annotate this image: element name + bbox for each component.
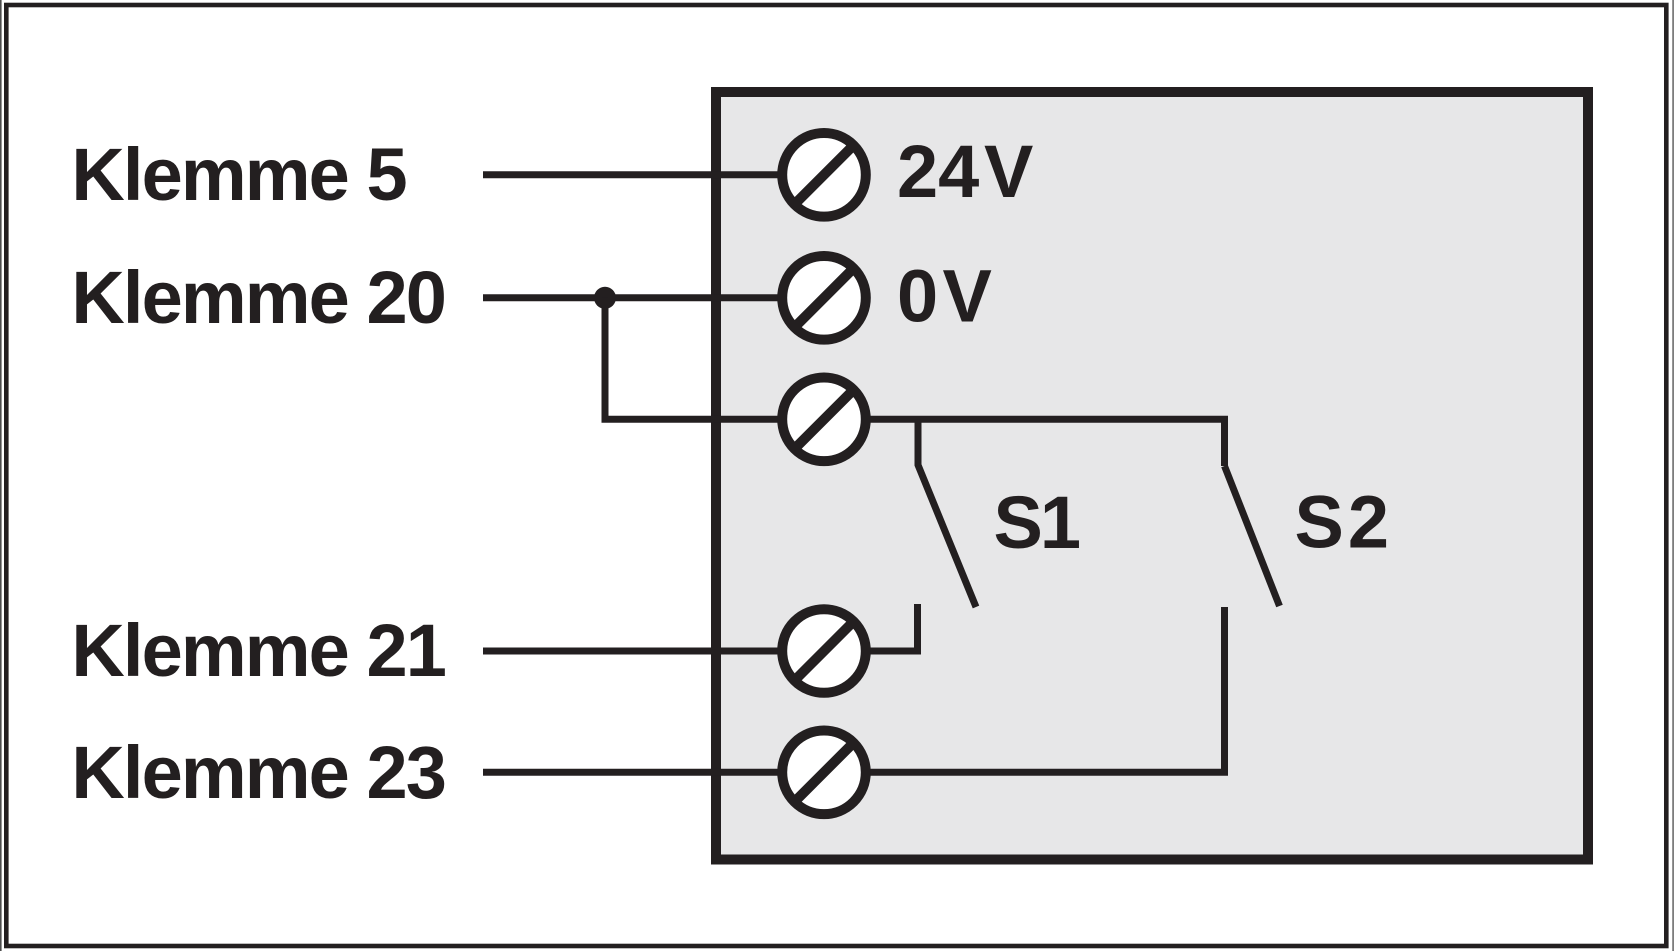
wire Klemme 5 to 24V terminal bbox=[483, 171, 824, 178]
svg-text:24: 24 bbox=[897, 130, 979, 213]
wire Klemme 23 to terminal 5 bbox=[483, 769, 824, 776]
terminal 3 bbox=[782, 378, 866, 462]
switch S1 bbox=[918, 419, 976, 607]
svg-text:Klemme 20: Klemme 20 bbox=[71, 256, 445, 339]
terminal 0V bbox=[782, 256, 866, 340]
label 24 V bbox=[897, 130, 1033, 213]
svg-text:Klemme 23: Klemme 23 bbox=[71, 731, 445, 814]
svg-text:S1: S1 bbox=[994, 481, 1080, 564]
svg-text:0: 0 bbox=[897, 255, 938, 338]
wire junction node to terminal 3 bbox=[605, 298, 824, 420]
node junction on Klemme 20 wire bbox=[594, 287, 616, 309]
wire terminal 5 to S2 bottom contact bbox=[824, 607, 1225, 772]
svg-text:V: V bbox=[984, 130, 1033, 213]
label 0 V bbox=[897, 255, 992, 338]
terminal Klemme 21 bbox=[782, 609, 866, 693]
svg-text:Klemme 5: Klemme 5 bbox=[71, 133, 406, 216]
svg-text:V: V bbox=[943, 255, 992, 338]
terminal Klemme 23 bbox=[782, 731, 866, 815]
switch S2 bbox=[1225, 466, 1280, 606]
wire Klemme 21 to terminal 4 bbox=[483, 648, 824, 655]
svg-text:S2: S2 bbox=[1295, 481, 1394, 564]
wire terminal 4 to S1 bottom contact bbox=[824, 604, 918, 651]
device box bbox=[716, 92, 1588, 860]
terminal 24V bbox=[782, 133, 866, 217]
svg-text:Klemme 21: Klemme 21 bbox=[71, 609, 445, 692]
wire terminal 3 to switch S2 top bbox=[824, 419, 1225, 466]
wire Klemme 20 to 0V terminal bbox=[483, 294, 824, 301]
